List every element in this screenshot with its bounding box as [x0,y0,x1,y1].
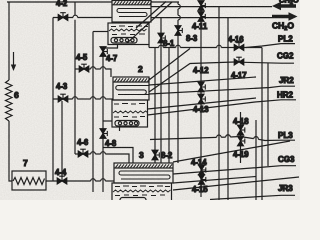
wire exchanger out line [46,180,91,182]
wire riser x93 [92,32,94,193]
tank 2 liquid dashes [114,103,145,106]
valve 4-4 [57,176,67,184]
tank 2 hatch band [113,81,149,83]
tank 3 coil [119,171,173,179]
valve 4-3 [58,94,68,102]
wire riser x75 [74,2,76,15]
wire JR3 underline [210,195,295,199]
tank 3 coil box [114,163,173,183]
valve 4-11b [198,12,205,22]
tank 2 liquid box [112,100,148,127]
tank 1 coil [117,9,151,17]
CH2O bold arrow 2 [272,12,298,21]
flow arrow down [13,52,15,66]
wire riser x201 [200,1,202,197]
valve 4-6 [78,149,88,157]
CH2O bold arrow 1 [272,2,296,11]
valve 4-5 [79,64,89,72]
wire CH2O header 2 [151,17,272,19]
wire sloped e [173,141,290,162]
wire 4-2 line [53,17,73,19]
wire riser x219 [218,7,220,200]
wire tank2 left tap [103,120,112,122]
valve 4-18 [238,125,245,135]
valve 8-3 [175,26,182,36]
wire sloped JR2 [149,86,295,94]
wire tank2 sparger drop [119,127,121,131]
wire riser x53 [52,18,54,182]
wire riser x256 [255,120,257,200]
wire sloped c [148,98,257,109]
wire riser x262 [261,48,263,201]
tank 3 liquid box [112,183,172,202]
wire top header [7,1,112,3]
wire diagonal B tank1 to header [136,2,166,29]
wire tank1 left stub [93,31,108,33]
wire riser x268 [267,63,269,166]
wire sloped g [173,177,256,184]
wire riser x228 [227,18,229,200]
wire PL2 out [246,44,295,48]
wire tank3 feed a [103,148,133,164]
wire riser x161 [160,18,162,163]
valve 4-16 [234,43,244,51]
tank 3 hatch band [114,167,173,169]
tank 1 liquid dashes 2 [112,33,145,36]
valve 4-19 [238,136,245,146]
wire CG2 diagonal [149,62,235,92]
valve 4-14 [199,165,206,175]
valve 4-11a [198,1,205,11]
tank 1 sparger [111,38,137,44]
tank 1 coil box [112,1,151,23]
wire riser x241 [240,112,242,163]
wire left main riser [8,2,10,80]
tank 1 wavy surface [109,29,147,31]
wire sloped CG3 [173,166,296,174]
wire riser x169 [168,48,170,164]
tank 3 sparger [120,198,146,204]
tank 2 coil [116,86,149,95]
component 7 exchanger [12,171,46,190]
valve 4-7 [100,47,107,57]
wire diagonal A tank1 to header [127,2,172,43]
wire riser x178 [177,2,179,4]
wire 4-5 line [75,68,91,70]
valve 8-1 [158,33,165,43]
tank 3 liquid dashes [115,185,170,188]
tank 2 liquid dashes 2 [114,116,145,119]
wire 4-6 line [75,153,91,155]
valve 8-2 [152,150,159,160]
tank 1 liquid dashes [111,25,148,28]
wire riser 8-2 [154,48,156,164]
tank 1 hatch band [112,4,151,6]
tank 2 wavy surface [113,111,148,113]
valve 4-12 [198,82,205,92]
tank 2 coil box [113,77,149,100]
wire PL2 diagonal from tank2 [149,49,190,81]
wire main cross line y47.5 [149,47,159,49]
wire sloped JR3 [173,177,299,190]
tank 2 sparger [115,121,139,127]
valve 4-8 [100,129,107,139]
wire left riser lower [9,121,12,181]
valve 4-13 [198,94,205,104]
tank 1 liquid box [108,23,149,45]
wire CH2O header 1 [151,6,272,8]
valve 4-17 [234,57,244,65]
component 6 heater zigzag [6,80,13,121]
wire sloped HR2 [148,100,297,115]
wire top header right part [151,1,179,3]
tank 3 wavy surface [113,190,171,192]
wire riser x103 [102,48,104,192]
wire riser x62 [61,101,63,177]
wire tank1 outlet stub [148,45,150,48]
tank 3 liquid dashes 2 [115,194,165,197]
valve 4-2 [58,13,68,21]
wire tank1 sparger drop [103,44,118,48]
wire sloped PL3 [150,137,217,139]
wire 4-3 line [53,98,73,100]
valve 4-15 [199,175,206,185]
wire CG2 out [244,61,295,64]
wire sloped a [149,77,256,85]
